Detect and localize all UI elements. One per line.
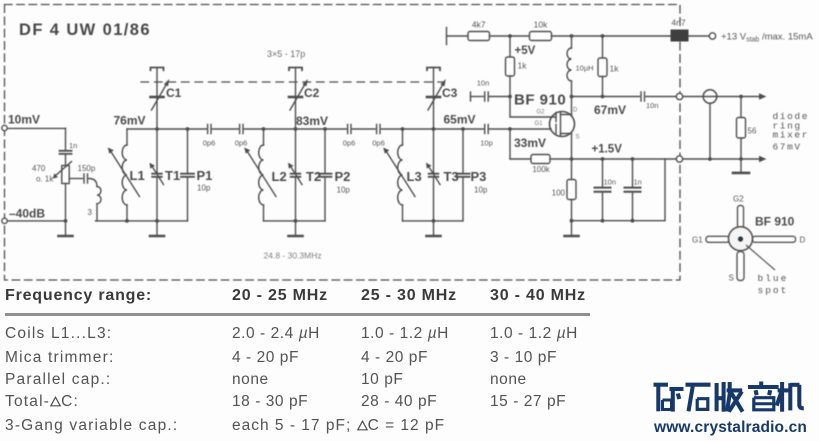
capacitor 10n G2 coupling xyxy=(485,92,489,101)
wire tank1 bottom xyxy=(96,220,188,222)
wire main line to tank3 xyxy=(381,128,483,130)
table row total deltaC xyxy=(5,394,79,410)
wire supply rail segment 4 xyxy=(689,35,710,37)
package lead G2 xyxy=(738,206,744,229)
blue spot dot xyxy=(738,236,743,241)
capacitor P3 xyxy=(462,129,464,173)
table row mica trimmer xyxy=(5,350,114,366)
capacitor P2 xyxy=(324,129,326,173)
wire main line to tank2 xyxy=(244,128,346,130)
wire G1 bias vertical xyxy=(509,129,511,159)
inductor link coil 3 turns xyxy=(97,187,101,204)
capacitor 4n7 feedthrough xyxy=(671,30,689,42)
table row parallel cap xyxy=(5,372,111,388)
wire source line left xyxy=(510,158,531,160)
logo char kuang xyxy=(654,385,684,412)
feedthrough node drain xyxy=(676,93,682,99)
feedthrough node source line xyxy=(676,156,682,162)
package lead S xyxy=(737,252,744,281)
wire input bottom xyxy=(7,220,65,222)
wire source line right xyxy=(550,158,676,160)
capacitor 1n input xyxy=(60,151,72,154)
resistor 56 xyxy=(740,97,742,118)
terminal +13V xyxy=(709,33,715,39)
wire drain line xyxy=(572,96,640,98)
input terminal 10mV xyxy=(2,125,7,130)
logo char ji xyxy=(777,382,804,412)
inductor 10uH drain choke xyxy=(571,36,573,48)
wire +5V branch upper xyxy=(509,36,511,57)
resistor 100k xyxy=(531,155,550,164)
resistor 1k (G2 feed) xyxy=(506,57,515,76)
capacitor 10p G1 coupling xyxy=(485,125,489,134)
arrow to mixer bottom xyxy=(759,156,767,162)
ground tank1 xyxy=(156,221,158,235)
wire main line tank1 xyxy=(127,128,206,130)
inductor L1 xyxy=(126,129,128,145)
transistor Q1 BF910 body xyxy=(550,112,575,137)
ground source network xyxy=(571,221,573,235)
logo char yin xyxy=(748,382,779,410)
capacitor 1n source bypass xyxy=(632,159,634,187)
wire tank2 bottom xyxy=(264,220,326,222)
table row 3-gang xyxy=(5,418,178,434)
resistor 10k xyxy=(530,32,552,41)
arrow to mixer top xyxy=(759,93,767,99)
package lead G1 xyxy=(706,236,729,242)
capacitor P1 xyxy=(187,129,189,173)
input bottom terminal -40dB xyxy=(2,218,7,223)
wire 150p to link coil xyxy=(89,179,97,187)
svg-text:www.crystalradio.cn: www.crystalradio.cn xyxy=(653,419,807,436)
coax connector symbol xyxy=(703,90,717,104)
potentiometer 470 / 1k xyxy=(65,155,67,166)
logo char shi xyxy=(686,385,711,412)
wire +5V branch lower xyxy=(509,76,511,97)
capacitor 0p6 d xyxy=(377,125,380,134)
wire tank3 bottom xyxy=(403,220,464,222)
resistor 1k drain damping xyxy=(602,36,604,58)
schematic text labels xyxy=(8,18,813,261)
wire input top xyxy=(7,127,65,129)
wire right of drain feedthrough xyxy=(683,96,762,98)
capacitor 10n drain coupling xyxy=(641,92,645,101)
wire coax down xyxy=(709,103,711,159)
wire between 0p6 pair xyxy=(212,128,238,130)
wire G2 node down and to gate 2 xyxy=(510,97,556,118)
capacitor 150p xyxy=(84,174,88,183)
G2 input stub xyxy=(470,92,472,101)
inductor L3 xyxy=(402,129,404,145)
package lead D xyxy=(753,236,796,242)
table header rule xyxy=(5,313,590,316)
variable capacitor C2 xyxy=(295,69,297,130)
ground input network xyxy=(65,221,67,235)
trimmer T3 xyxy=(433,129,435,173)
wire drain cap to border xyxy=(646,96,676,98)
pointer line to blue spot xyxy=(746,245,775,270)
wire source lead down xyxy=(571,134,573,160)
wire G2 stub to cap xyxy=(471,96,484,98)
wire between 0p6 pair 2 xyxy=(352,128,375,130)
wire supply rail segment 2 xyxy=(490,35,530,37)
package body circle xyxy=(729,227,753,251)
wire supply rail segment 1 xyxy=(447,35,469,37)
ground 56 xyxy=(740,159,742,172)
BF910 package top view xyxy=(706,206,796,281)
capacitor 10n source bypass xyxy=(602,159,604,187)
wire source bottom return xyxy=(572,159,666,221)
ground tank3 xyxy=(433,221,435,235)
wire wiper to 150p xyxy=(69,178,82,180)
wire supply rail segment 3 xyxy=(552,35,671,37)
variable capacitor C3 xyxy=(433,69,435,130)
wire right of source feedthrough xyxy=(683,158,762,160)
trimmer T2 xyxy=(295,129,297,173)
schematic dashed enclosure border xyxy=(5,5,681,281)
capacitor 0p6 a xyxy=(208,125,211,134)
table row coils xyxy=(5,326,112,342)
wire G1 line xyxy=(490,128,551,130)
trimmer T1 xyxy=(156,129,158,173)
capacitor 0p6 c xyxy=(348,125,351,134)
logo char shou xyxy=(715,382,743,412)
resistor 4k7 xyxy=(468,32,490,41)
wire cap to +5V node xyxy=(490,96,510,98)
variable capacitor C1 xyxy=(156,69,158,130)
wire input vertical xyxy=(65,128,67,150)
ground tank2 xyxy=(295,221,297,235)
gang link dashed line xyxy=(141,81,443,83)
resistor 100 source xyxy=(571,159,573,180)
table header row xyxy=(5,288,152,304)
supply rail start tick xyxy=(446,28,448,45)
capacitor 0p6 b xyxy=(240,125,243,134)
inductor L2 xyxy=(263,129,265,145)
